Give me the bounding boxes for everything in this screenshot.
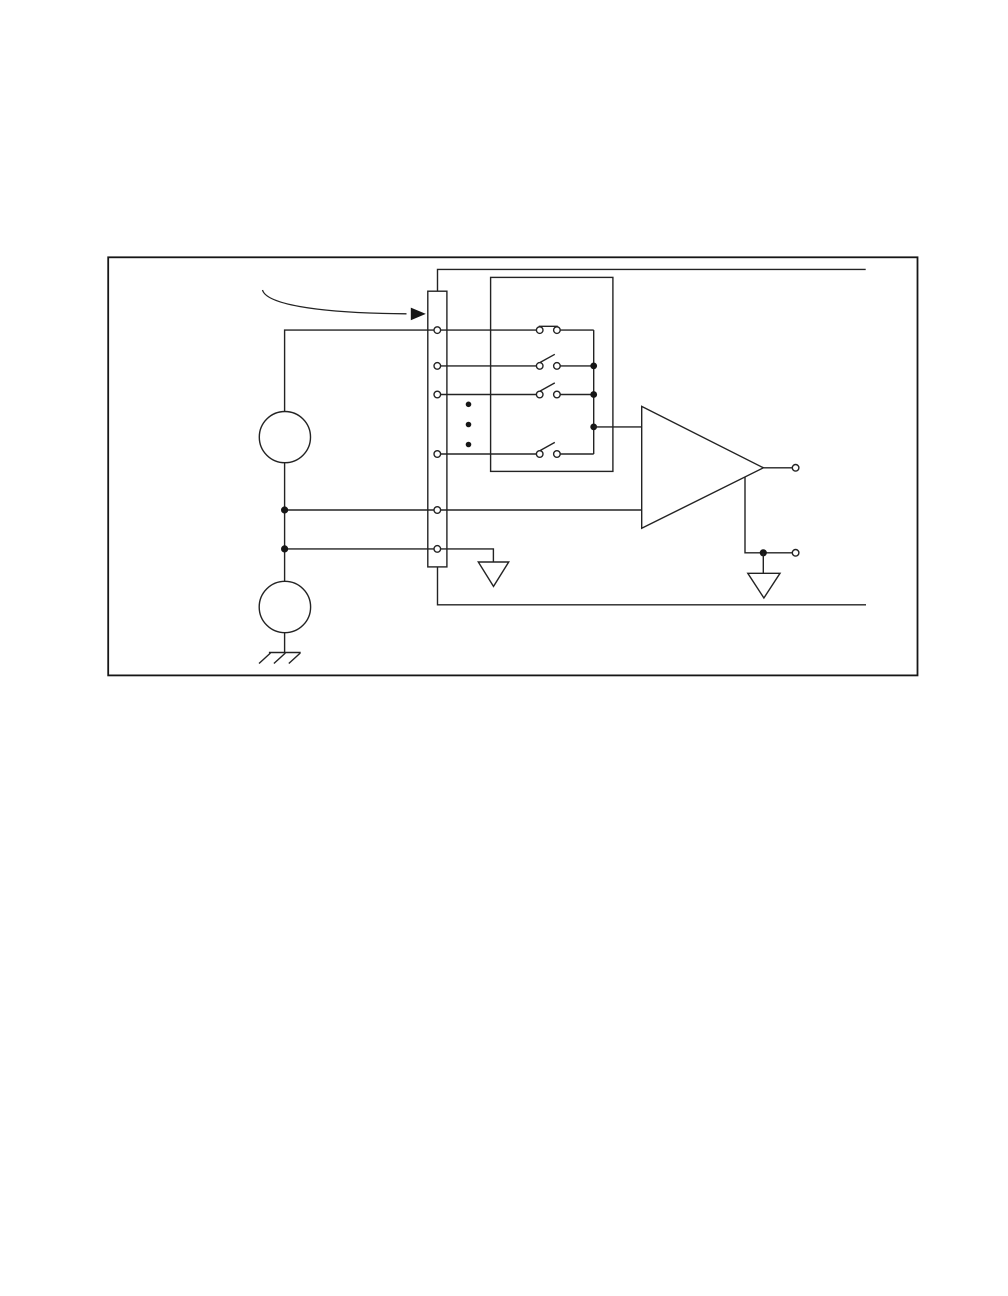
- switch S1 (closed): [536, 326, 560, 333]
- switch S2 (open): [536, 354, 560, 369]
- wire: switch S3 to mux output bus: [557, 394, 594, 396]
- ground: AIGND ground triangle: [478, 562, 508, 586]
- callout arrowhead: [411, 308, 426, 321]
- node: channel ellipsis dots (more channels): [466, 402, 472, 448]
- node: bus junction at amplifier input: [590, 424, 597, 431]
- terminal: output reference (open circle): [792, 550, 799, 557]
- wire: ACH0 from source V1 to terminal and switch S1: [285, 330, 540, 411]
- node: bus junction at S2: [590, 363, 597, 370]
- I/O connector J1: [428, 291, 447, 567]
- wire: mux output to op-amp noninverting input: [594, 426, 642, 428]
- switch S4 (open): [536, 442, 560, 457]
- node: AISENSE tap junction: [281, 506, 288, 513]
- wire: vertical between source V1 and source V2 with taps: [284, 463, 286, 582]
- terminal: measured output (open circle): [792, 465, 799, 472]
- wire: AIGND from junction to ground triangle: [285, 549, 494, 562]
- terminal ACH1: [434, 363, 441, 370]
- wire: source V2 to earth ground: [284, 633, 286, 653]
- wire: op-amp reference to output ground: [745, 477, 792, 553]
- voltage source V2: [259, 581, 310, 632]
- terminal ACH0: [434, 327, 441, 334]
- wire: ACH15 terminal to switch S4: [437, 453, 539, 455]
- wire: switch S1 to mux output bus: [557, 329, 594, 331]
- ground: earth ground below source V2: [259, 653, 301, 664]
- wire: device boundary top (from I/O connector to right): [438, 269, 866, 291]
- terminal ACH2: [434, 391, 441, 398]
- terminal ACH15: [434, 451, 441, 458]
- node: AIGND tap junction: [281, 545, 288, 552]
- node: bus junction at S3: [590, 391, 597, 398]
- wire: ACH1 terminal to switch S2: [437, 365, 539, 367]
- wire: device boundary bottom (from I/O connector to right): [438, 567, 867, 605]
- wire: switch S4 to mux output bus: [557, 453, 594, 455]
- terminal AIGND: [434, 546, 441, 553]
- wire: ACH2 terminal to switch S3: [437, 394, 539, 396]
- multiplexer box U1: [491, 277, 613, 471]
- ground: output reference ground triangle: [748, 573, 780, 598]
- node: output ground junction: [760, 549, 767, 573]
- op-amp U2 instrumentation amplifier: [642, 406, 764, 528]
- wire: op-amp output: [763, 467, 792, 469]
- switch S3 (open): [536, 383, 560, 398]
- figure border frame: [108, 257, 917, 675]
- voltage source V1: [259, 412, 310, 463]
- wire: mux output bus vertical: [593, 330, 595, 454]
- terminal AISENSE: [434, 507, 441, 514]
- callout curve pointing to I/O connector: [263, 290, 407, 314]
- wire: AISENSE from junction to op-amp inverting input: [285, 509, 642, 511]
- wire: switch S2 to mux output bus: [557, 365, 594, 367]
